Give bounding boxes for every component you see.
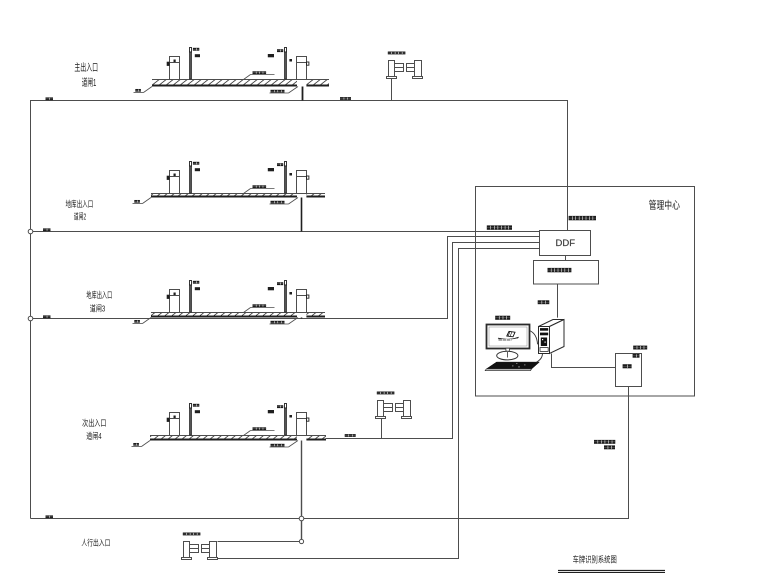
detector posts road4 label xyxy=(377,392,395,395)
detector posts road4 right post xyxy=(402,401,412,419)
road 3 barrier gate machine xyxy=(167,290,180,313)
svg-text:车牌识别系统图: 车牌识别系统图 xyxy=(573,555,617,565)
svg-text:次出入口: 次出入口 xyxy=(82,418,106,428)
road 4 camera body left xyxy=(195,410,200,413)
terminal control box xyxy=(616,354,642,387)
detector posts pedestrian right post xyxy=(208,542,218,560)
DDF box U1 xyxy=(540,231,591,256)
road 4 camera label left xyxy=(193,404,199,407)
wire road4 conduit drop xyxy=(301,436,303,542)
road 2 surface bar xyxy=(151,193,325,198)
road 1 camera label left xyxy=(193,48,199,51)
wire detector road4 drop xyxy=(381,419,383,439)
wire road4 bus xyxy=(326,243,540,439)
road 4 ticket dispenser box xyxy=(297,413,309,436)
detector posts road1 right post xyxy=(413,61,423,79)
wire gauge label xyxy=(345,434,356,437)
road 2 camera body left xyxy=(195,168,200,171)
svg-text:道闸3: 道闸3 xyxy=(90,303,106,313)
node junction road3 xyxy=(28,316,33,321)
wire bottom trunk bus xyxy=(31,387,629,519)
label 管理电脑 xyxy=(495,316,510,320)
road 2 camera pole left xyxy=(190,162,192,194)
wire gauge label xyxy=(43,228,51,231)
road 2 sensor dot xyxy=(289,173,292,176)
road 3 conduit notch xyxy=(297,313,306,318)
node junction road2 xyxy=(28,229,33,234)
detector posts road4 left post xyxy=(376,401,386,419)
road 2 conduit notch xyxy=(297,194,306,198)
road 2 cable label above bar xyxy=(244,185,275,193)
svg-text:道闸2: 道闸2 xyxy=(74,212,87,222)
road 3 camera label right xyxy=(277,282,283,285)
wire road1 conduit drop xyxy=(302,80,304,101)
road 3 camera label left xyxy=(193,281,199,284)
svg-text:道闸1: 道闸1 xyxy=(82,76,97,89)
management centre box xyxy=(476,187,695,397)
road 4 barrier gate machine xyxy=(167,413,180,436)
node junction bottom bus xyxy=(299,516,304,521)
wire road3 bus xyxy=(31,237,540,319)
road 4 cable label below bar xyxy=(270,441,299,448)
road 2 camera pole right xyxy=(285,162,287,194)
road 1 camera label right xyxy=(277,49,283,52)
road 1 camera pole right xyxy=(285,48,287,80)
monitor stand xyxy=(497,348,518,360)
core switch box xyxy=(534,261,599,285)
monitor windows logo xyxy=(498,331,519,340)
road 2 left leader label xyxy=(133,198,152,204)
wire DDF to switch xyxy=(565,256,567,261)
PC monitor xyxy=(487,325,530,349)
label UTP-5e xyxy=(538,300,550,304)
svg-text:地库出入口: 地库出入口 xyxy=(86,290,112,300)
road 1 camera body left xyxy=(195,54,200,57)
road 4 camera body right xyxy=(268,410,274,413)
road 1 ticket dispenser box xyxy=(297,57,309,80)
PC keyboard xyxy=(485,362,539,371)
road 3 left leader label xyxy=(133,318,152,324)
detector posts road1 left post xyxy=(387,61,397,79)
road 1 left leader label xyxy=(134,87,153,93)
road 1 camera pole left xyxy=(190,48,192,80)
road 4 surface bar xyxy=(150,435,326,441)
road 1 cable label above bar xyxy=(244,71,275,79)
svg-text:地库出入口: 地库出入口 xyxy=(66,199,94,209)
label RVV4x1.5 xyxy=(594,440,615,444)
label RVV3x1.5 xyxy=(633,346,647,350)
label fiber cable top xyxy=(569,216,596,220)
road 1 sensor dot xyxy=(289,59,292,62)
monitor cable xyxy=(530,331,538,345)
road 2 cable label below bar xyxy=(270,198,299,205)
wire gauge label xyxy=(46,97,54,100)
title 车牌识别系统图 xyxy=(558,555,665,573)
road 1 conduit notch xyxy=(297,80,306,87)
road 4 camera label right xyxy=(277,405,283,408)
road 2 barrier gate machine xyxy=(167,171,180,194)
wire road1 trunk bus xyxy=(31,101,568,519)
detector posts pedestrian label xyxy=(183,533,201,536)
detector posts road1 right arm xyxy=(407,64,415,72)
wire gauge label xyxy=(43,315,51,318)
road 1 cable label below bar xyxy=(270,87,299,94)
label fiber cable left xyxy=(487,225,512,229)
road 2 camera label left xyxy=(193,162,199,165)
wire switch to PC xyxy=(557,284,559,318)
detector posts pedestrian right arm xyxy=(202,545,210,553)
detector posts pedestrian left post xyxy=(182,542,192,560)
svg-text:主出入口: 主出入口 xyxy=(74,61,98,74)
road 2 ticket dispenser box xyxy=(297,171,309,194)
wire pedestrian upper link xyxy=(218,541,302,543)
wire road2 bus xyxy=(31,231,540,233)
node junction pedestrian xyxy=(299,539,303,543)
road 4 camera pole right xyxy=(285,404,287,436)
wire gauge label xyxy=(46,515,54,518)
wire gauge label xyxy=(340,97,351,100)
road 4 left leader label xyxy=(132,441,151,447)
road 2 camera body right xyxy=(268,168,274,171)
detector posts pedestrian left arm xyxy=(190,545,199,553)
road 3 sensor dot xyxy=(289,292,292,295)
road 1 barrier gate machine xyxy=(167,57,180,80)
road 4 camera pole left xyxy=(190,404,192,436)
detector posts road4 right arm xyxy=(396,404,404,412)
detector posts road1 label xyxy=(388,52,406,55)
svg-text:管理中心: 管理中心 xyxy=(649,199,681,212)
detector posts road4 left arm xyxy=(384,404,393,412)
road 3 camera pole left xyxy=(190,281,192,313)
road 4 sensor dot xyxy=(289,415,292,418)
road 1 camera body right xyxy=(268,54,274,57)
road 3 surface bar xyxy=(151,312,325,318)
wire road2 conduit drop xyxy=(301,194,303,232)
road 1 surface bar xyxy=(152,79,329,87)
svg-text:DDF: DDF xyxy=(556,238,576,248)
PC tower xyxy=(539,320,565,354)
wire detector top drop xyxy=(391,79,393,101)
road 3 cable label below bar xyxy=(270,318,299,325)
wire pedestrian bus xyxy=(218,249,540,559)
road 3 camera body right xyxy=(268,287,274,290)
road 3 ticket dispenser box xyxy=(297,290,309,313)
wire road3 conduit drop xyxy=(301,313,303,319)
road 2 camera label right xyxy=(277,163,283,166)
detector posts road1 left arm xyxy=(395,64,404,72)
keyboard cable xyxy=(537,350,543,363)
road 3 cable label above bar xyxy=(244,304,275,312)
road 4 cable label above bar xyxy=(244,427,275,435)
wire PC to terminal xyxy=(552,354,616,368)
road 3 camera body left xyxy=(195,287,200,290)
road 4 conduit notch xyxy=(297,436,306,441)
svg-text:人行出入口: 人行出入口 xyxy=(81,538,110,548)
road 3 camera pole right xyxy=(285,281,287,313)
svg-text:道闸4: 道闸4 xyxy=(86,431,102,441)
